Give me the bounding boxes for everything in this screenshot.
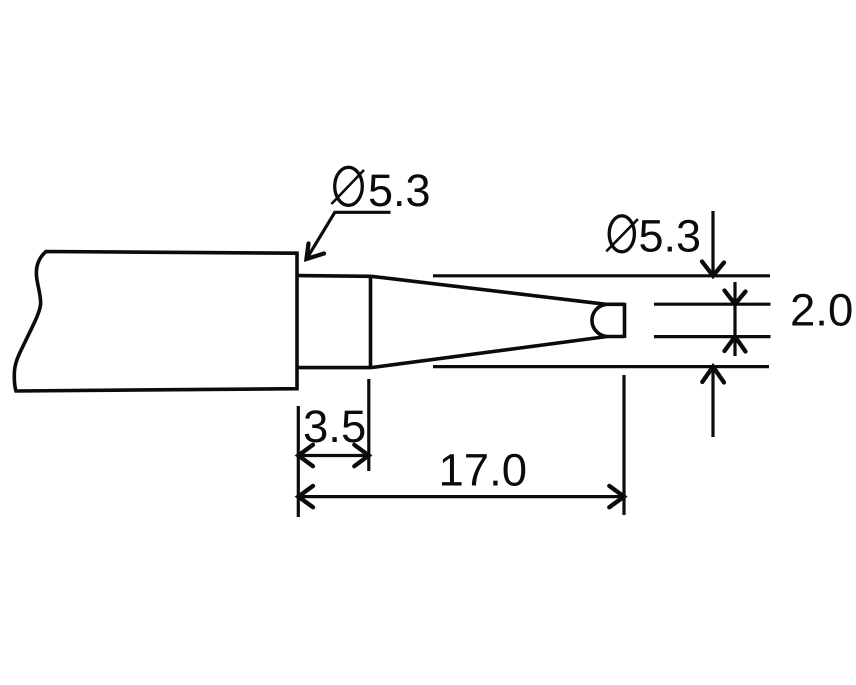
17.0 dim line — [298, 495, 624, 498]
dia symbol left label: slash — [331, 170, 364, 204]
leader arrowhead at body corner — [307, 244, 325, 260]
arrowhead right on 17.0 dim — [609, 486, 624, 507]
svg-text:5.3: 5.3 — [368, 165, 431, 216]
2.0 bottom extension line — [654, 335, 771, 338]
middle extension line (shank end) — [367, 379, 370, 471]
iron body outline (broken left edge) — [14, 252, 297, 392]
2.0 dim vertical — [733, 282, 736, 356]
shank bottom line — [297, 366, 371, 370]
tip chisel arc — [592, 304, 607, 336]
arrowhead down at top extension line — [702, 262, 724, 276]
arrowhead left on 3.5 dim — [298, 445, 313, 466]
right dia dim upper vertical — [711, 211, 714, 276]
2.0 top extension line — [654, 303, 771, 306]
arrowhead up at 2.0 bottom line — [725, 337, 746, 352]
arrowhead down at 2.0 top line — [725, 291, 746, 305]
right dia dim lower vertical — [711, 367, 714, 437]
bottom extension line — [433, 365, 769, 368]
3.5 dim line — [298, 454, 369, 457]
tip top flat — [606, 302, 625, 306]
svg-text:17.0: 17.0 — [439, 445, 528, 496]
arrowhead left on 17.0 dim — [298, 486, 313, 507]
dia symbol right label: circle — [609, 216, 634, 252]
tip end face — [623, 303, 627, 338]
top extension line — [433, 274, 770, 277]
dia symbol left label: circle — [335, 167, 363, 205]
leader line for first dia label — [307, 212, 391, 259]
taper bottom line — [371, 337, 607, 368]
svg-text:5.3: 5.3 — [639, 211, 702, 262]
dia symbol right label: slash — [606, 219, 638, 251]
tip bottom flat — [607, 335, 625, 339]
arrowhead right on 3.5 dim — [354, 445, 369, 466]
arrowhead up at bottom extension line — [702, 367, 724, 383]
tip-end extension line — [622, 375, 625, 515]
taper top line — [371, 276, 606, 304]
svg-text:3.5: 3.5 — [303, 401, 366, 452]
shank/taper boundary line — [369, 276, 373, 368]
left extension line (body end) — [297, 406, 300, 517]
svg-text:2.0: 2.0 — [790, 285, 853, 336]
shank top line — [297, 274, 371, 278]
